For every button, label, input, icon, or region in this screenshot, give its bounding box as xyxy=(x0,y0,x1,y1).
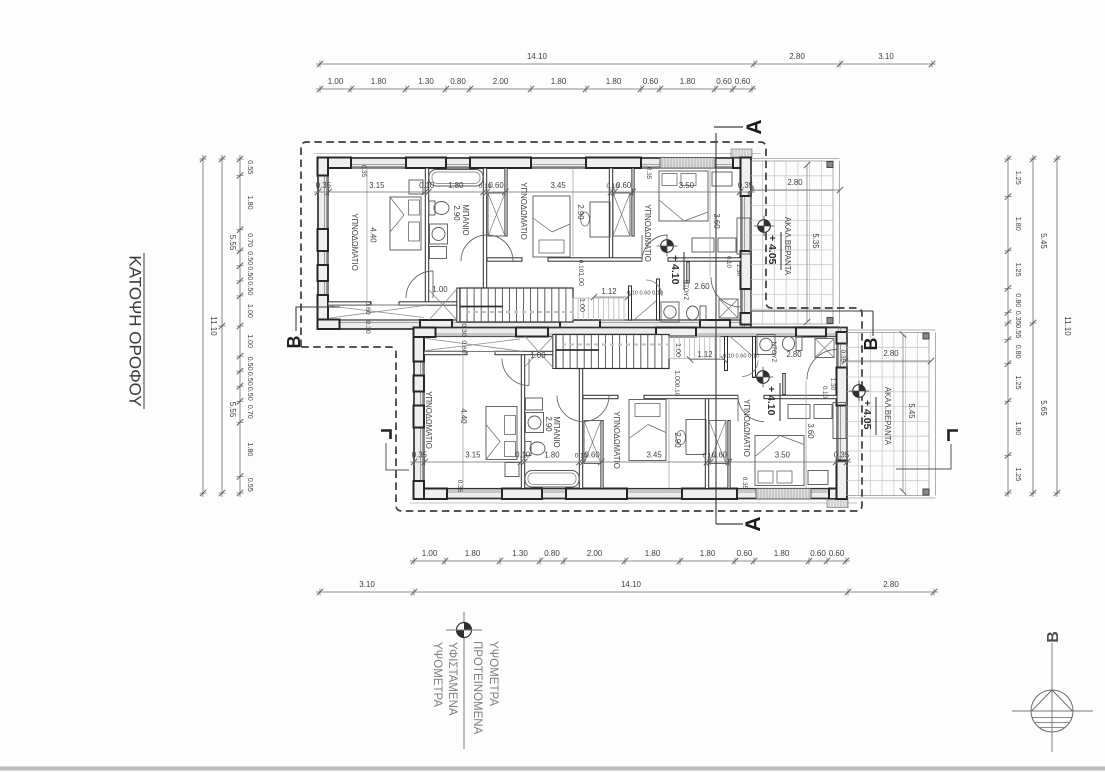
svg-text:1.30: 1.30 xyxy=(418,77,434,86)
svg-text:1.80: 1.80 xyxy=(465,549,481,558)
svg-text:5.55: 5.55 xyxy=(228,402,237,418)
svg-text:2.80: 2.80 xyxy=(787,178,803,187)
svg-text:11.10: 11.10 xyxy=(1063,316,1072,336)
svg-text:0.35: 0.35 xyxy=(645,167,652,180)
svg-text:5.65: 5.65 xyxy=(1039,400,1048,416)
svg-text:+ 4.05: + 4.05 xyxy=(861,400,873,430)
svg-text:1.00: 1.00 xyxy=(578,298,587,312)
svg-text:ΑΚΑΛ.ΒΕΡΑΝΤΑ: ΑΚΑΛ.ΒΕΡΑΝΤΑ xyxy=(883,387,892,446)
svg-text:ΥΠΝΟΔΩΜΑΤΙΟ: ΥΠΝΟΔΩΜΑΤΙΟ xyxy=(612,411,621,469)
svg-text:0.10: 0.10 xyxy=(577,260,584,273)
svg-text:1.30: 1.30 xyxy=(829,378,836,391)
svg-text:0.10: 0.10 xyxy=(515,451,531,460)
svg-text:2.80: 2.80 xyxy=(786,350,802,359)
svg-text:2.80: 2.80 xyxy=(883,349,899,358)
svg-text:1.30: 1.30 xyxy=(735,264,742,277)
svg-text:0.35: 0.35 xyxy=(412,451,428,460)
svg-text:3.10: 3.10 xyxy=(878,52,894,61)
svg-text:1.80: 1.80 xyxy=(371,77,387,86)
svg-text:ΥΠΝΟΔΩΜΑΤΙΟ: ΥΠΝΟΔΩΜΑΤΙΟ xyxy=(643,204,652,262)
svg-text:0.10: 0.10 xyxy=(606,183,619,190)
svg-text:0.80: 0.80 xyxy=(450,77,466,86)
svg-text:2.90: 2.90 xyxy=(673,432,682,448)
svg-text:ΜΠΑΝΙΟ: ΜΠΑΝΙΟ xyxy=(461,204,470,235)
svg-text:1.00: 1.00 xyxy=(577,272,586,286)
svg-text:1.80: 1.80 xyxy=(774,549,790,558)
svg-text:ΥΨΟΜΕΤΡΑ: ΥΨΟΜΕΤΡΑ xyxy=(431,642,443,707)
svg-text:ΥΠΝΟΔΩΜΑΤΙΟ: ΥΠΝΟΔΩΜΑΤΙΟ xyxy=(350,213,359,271)
svg-text:0.80: 0.80 xyxy=(544,549,560,558)
svg-text:ΝΤΟΥΖ: ΝΤΟΥΖ xyxy=(682,280,689,301)
svg-text:0.80: 0.80 xyxy=(1014,293,1023,307)
svg-text:B: B xyxy=(284,336,304,349)
svg-text:2.80: 2.80 xyxy=(789,52,805,61)
svg-text:3.10: 3.10 xyxy=(359,580,375,589)
svg-text:2.60: 2.60 xyxy=(694,282,710,291)
svg-text:0.10: 0.10 xyxy=(821,386,827,398)
svg-text:3.45: 3.45 xyxy=(647,451,663,460)
svg-text:1.25: 1.25 xyxy=(1014,263,1023,277)
svg-text:0.35: 0.35 xyxy=(316,181,332,190)
svg-text:ΥΠΝΟΔΩΜΑΤΙΟ: ΥΠΝΟΔΩΜΑΤΙΟ xyxy=(519,182,528,240)
svg-text:B: B xyxy=(1045,631,1062,643)
svg-text:B: B xyxy=(861,338,881,351)
svg-text:1.12: 1.12 xyxy=(697,350,712,359)
svg-text:ΠΡΟΤΕΙΝΟΜΕΝΑ: ΠΡΟΤΕΙΝΟΜΕΝΑ xyxy=(471,641,483,735)
svg-text:14.10: 14.10 xyxy=(621,580,642,589)
svg-text:0.50: 0.50 xyxy=(246,372,255,386)
svg-text:1.80: 1.80 xyxy=(246,196,255,210)
svg-text:3.15: 3.15 xyxy=(369,181,385,190)
svg-text:1.80: 1.80 xyxy=(448,181,464,190)
svg-text:2.00: 2.00 xyxy=(587,549,603,558)
svg-text:A: A xyxy=(743,119,766,134)
svg-text:1.00: 1.00 xyxy=(328,77,344,86)
svg-text:0.60: 0.60 xyxy=(460,340,467,353)
svg-text:3.50: 3.50 xyxy=(679,181,695,190)
svg-text:0.30: 0.30 xyxy=(364,320,371,333)
svg-text:0.10: 0.10 xyxy=(673,384,680,397)
svg-text:1.80: 1.80 xyxy=(246,442,255,456)
svg-text:0.60: 0.60 xyxy=(829,549,845,558)
svg-text:1.25: 1.25 xyxy=(1014,467,1023,481)
svg-text:+ 4.05: + 4.05 xyxy=(766,235,778,265)
svg-text:3.15: 3.15 xyxy=(465,451,481,460)
svg-text:0.35: 0.35 xyxy=(360,165,367,178)
svg-text:1.80: 1.80 xyxy=(1014,421,1023,435)
svg-text:0.10: 0.10 xyxy=(419,181,435,190)
svg-text:0.35: 0.35 xyxy=(834,451,850,460)
svg-text:1.80: 1.80 xyxy=(551,77,567,86)
svg-text:1.30: 1.30 xyxy=(512,549,528,558)
svg-text:0.70: 0.70 xyxy=(246,233,255,247)
svg-text:14.10: 14.10 xyxy=(527,52,548,61)
svg-text:0.10 0.60 0.10: 0.10 0.60 0.10 xyxy=(723,354,759,360)
svg-text:0.10: 0.10 xyxy=(575,453,588,460)
svg-text:ΥΦΙΣΤΑΜΕΝΑ: ΥΦΙΣΤΑΜΕΝΑ xyxy=(446,642,458,716)
svg-text:2.80: 2.80 xyxy=(883,580,899,589)
svg-text:1.12: 1.12 xyxy=(601,287,616,296)
svg-text:5.55: 5.55 xyxy=(228,235,237,251)
svg-text:1.00: 1.00 xyxy=(422,549,438,558)
svg-text:0.10 0.60 0.10: 0.10 0.60 0.10 xyxy=(627,291,663,297)
svg-text:0.60: 0.60 xyxy=(810,549,826,558)
svg-text:+ 4.10: + 4.10 xyxy=(669,255,681,285)
svg-text:1.00: 1.00 xyxy=(673,370,682,384)
svg-text:ΥΠΝΟΔΩΜΑΤΙΟ: ΥΠΝΟΔΩΜΑΤΙΟ xyxy=(742,399,751,457)
svg-text:11.10: 11.10 xyxy=(209,316,218,336)
svg-text:0.50: 0.50 xyxy=(246,251,255,265)
svg-text:1.80: 1.80 xyxy=(606,77,622,86)
svg-text:0.60: 0.60 xyxy=(643,77,659,86)
svg-text:5.45: 5.45 xyxy=(1039,233,1048,249)
svg-text:1.00: 1.00 xyxy=(674,343,683,357)
svg-text:0.60: 0.60 xyxy=(737,549,753,558)
svg-text:2.00: 2.00 xyxy=(493,77,509,86)
svg-text:ΚΑΤΟΨΗ ΟΡΟΦΟΥ: ΚΑΤΟΨΗ ΟΡΟΦΟΥ xyxy=(126,255,145,406)
svg-text:ΝΤΟΥΖ: ΝΤΟΥΖ xyxy=(770,342,777,363)
svg-text:1.00: 1.00 xyxy=(530,351,546,360)
svg-text:2.90: 2.90 xyxy=(576,204,585,220)
svg-text:0.60: 0.60 xyxy=(364,301,371,314)
svg-text:ΑΚΑΛ.ΒΕΡΑΝΤΑ: ΑΚΑΛ.ΒΕΡΑΝΤΑ xyxy=(783,217,792,276)
svg-text:ΥΠΝΟΔΩΜΑΤΙΟ: ΥΠΝΟΔΩΜΑΤΙΟ xyxy=(424,391,433,449)
svg-text:0.80: 0.80 xyxy=(1014,345,1023,359)
svg-text:0.70: 0.70 xyxy=(246,405,255,419)
svg-text:1.80: 1.80 xyxy=(680,77,696,86)
svg-text:0.55: 0.55 xyxy=(246,160,255,174)
svg-text:+ 4.10: + 4.10 xyxy=(765,386,777,416)
svg-text:0.55: 0.55 xyxy=(1014,324,1023,338)
svg-text:A: A xyxy=(742,516,765,531)
svg-text:0.50: 0.50 xyxy=(246,357,255,371)
svg-text:5.35: 5.35 xyxy=(811,233,820,249)
svg-text:1.80: 1.80 xyxy=(645,549,661,558)
svg-text:2.90: 2.90 xyxy=(452,205,461,221)
svg-text:5.45: 5.45 xyxy=(907,403,916,419)
svg-text:0.30: 0.30 xyxy=(460,323,467,336)
svg-text:4.40: 4.40 xyxy=(369,227,378,243)
svg-text:0.50: 0.50 xyxy=(246,387,255,401)
svg-text:0.10: 0.10 xyxy=(479,183,492,190)
svg-text:0.50: 0.50 xyxy=(246,266,255,280)
svg-text:3.45: 3.45 xyxy=(551,181,567,190)
svg-text:3.60: 3.60 xyxy=(806,423,815,439)
svg-text:3.50: 3.50 xyxy=(775,451,791,460)
svg-text:0.60: 0.60 xyxy=(735,77,751,86)
svg-text:0.60: 0.60 xyxy=(716,77,732,86)
svg-text:1.80: 1.80 xyxy=(700,549,716,558)
svg-text:1.25: 1.25 xyxy=(1014,171,1023,185)
svg-text:1.00: 1.00 xyxy=(432,285,448,294)
svg-text:1.80: 1.80 xyxy=(544,451,560,460)
svg-text:0.35: 0.35 xyxy=(741,477,748,490)
svg-text:0.10: 0.10 xyxy=(725,256,731,268)
svg-text:0.35: 0.35 xyxy=(456,480,463,493)
svg-text:0.10: 0.10 xyxy=(702,453,715,460)
svg-text:2.90: 2.90 xyxy=(544,416,553,432)
svg-text:4.40: 4.40 xyxy=(459,408,468,424)
svg-text:0.50: 0.50 xyxy=(246,281,255,295)
svg-text:1.00: 1.00 xyxy=(246,334,255,348)
svg-text:0.55: 0.55 xyxy=(246,478,255,492)
svg-text:1.80: 1.80 xyxy=(1014,217,1023,231)
svg-text:1.25: 1.25 xyxy=(1014,376,1023,390)
svg-text:1.00: 1.00 xyxy=(246,304,255,318)
svg-text:0.35: 0.35 xyxy=(738,181,754,190)
svg-text:0.35: 0.35 xyxy=(1014,311,1023,325)
svg-text:ΥΨΟΜΕΤΡΑ: ΥΨΟΜΕΤΡΑ xyxy=(487,641,499,706)
